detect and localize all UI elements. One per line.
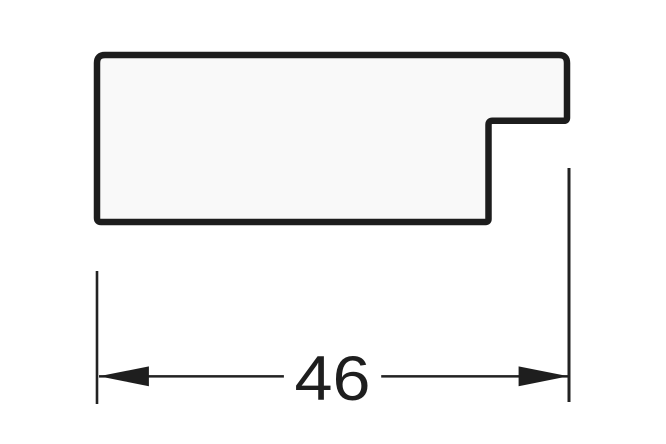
dimension line left segment xyxy=(99,375,284,378)
right extension line xyxy=(568,168,571,402)
right arrowhead xyxy=(519,366,569,386)
moulding profile cross-section outline xyxy=(97,55,567,222)
dimension line right segment xyxy=(381,375,568,378)
left extension line xyxy=(96,271,99,404)
svg-text:46: 46 xyxy=(295,344,371,414)
left arrowhead xyxy=(99,366,149,386)
